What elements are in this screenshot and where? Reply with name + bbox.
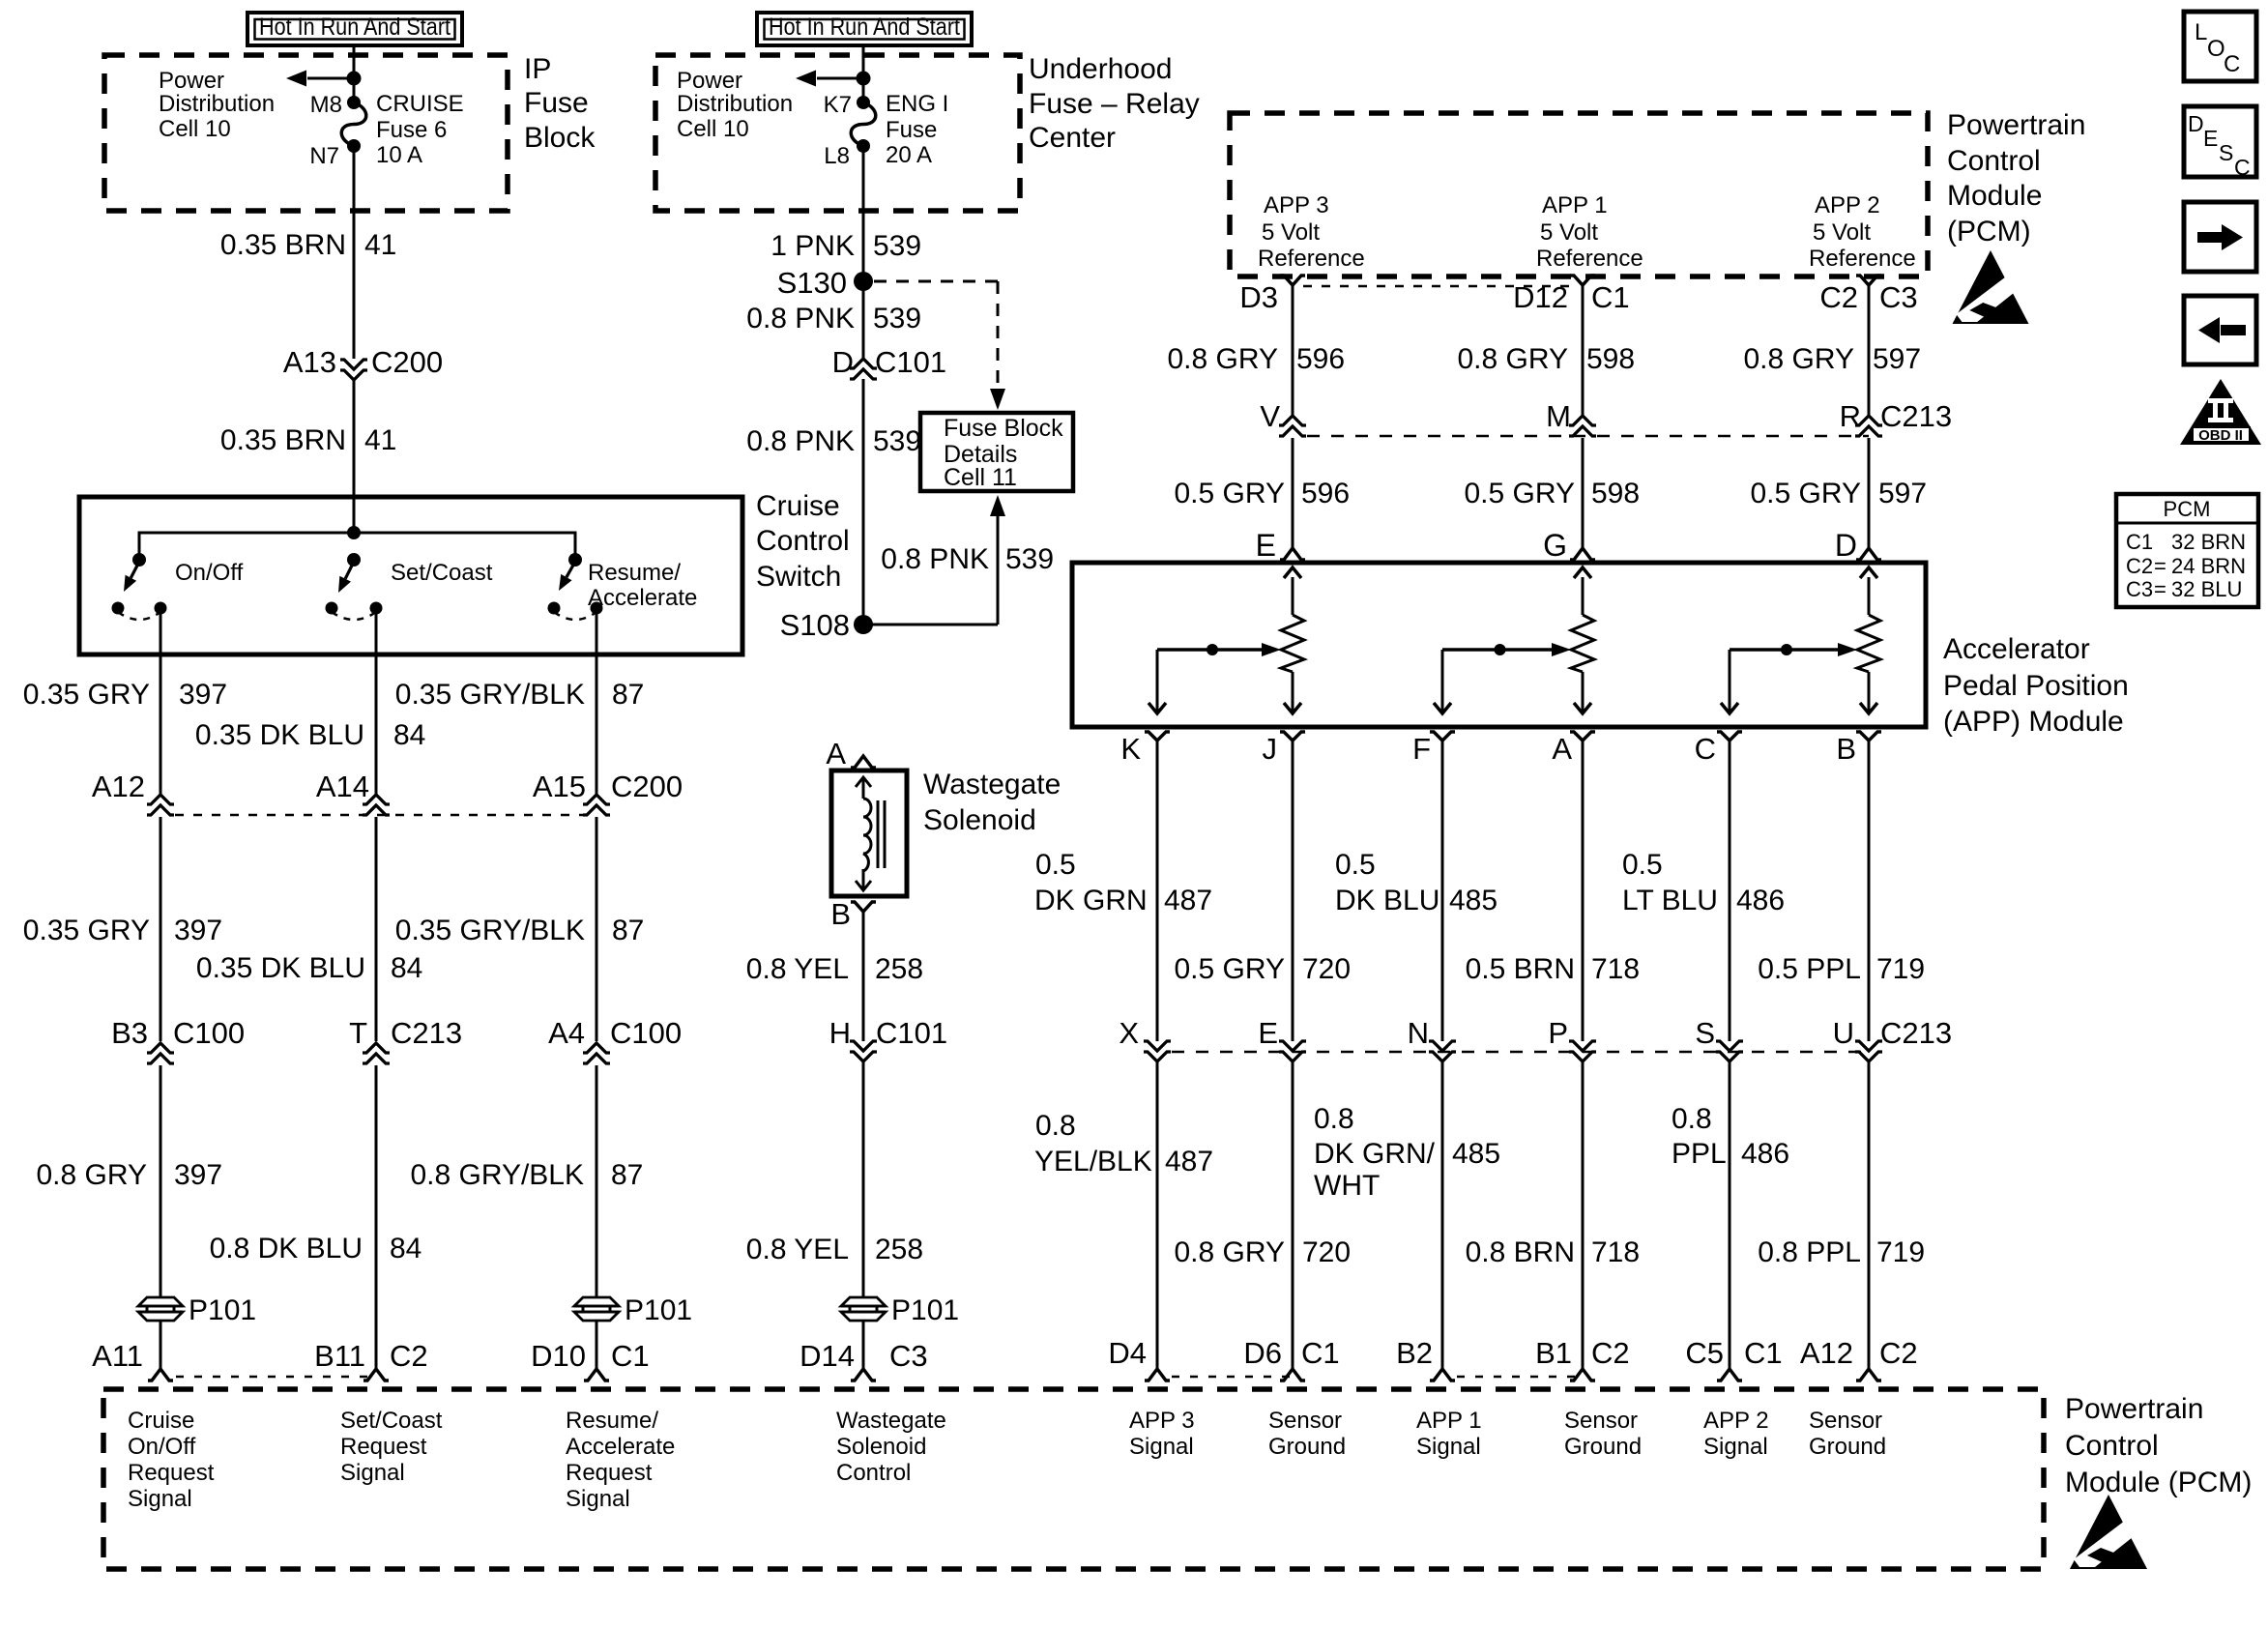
- svg-text:0.35 GRY: 0.35 GRY: [23, 679, 150, 711]
- svg-text:P101: P101: [625, 1294, 692, 1326]
- svg-text:Control: Control: [2065, 1430, 2159, 1462]
- svg-text:0.35 GRY: 0.35 GRY: [23, 915, 150, 946]
- svg-text:84: 84: [391, 952, 422, 984]
- svg-text:(APP) Module: (APP) Module: [1943, 706, 2124, 738]
- svg-text:0.5 PPL: 0.5 PPL: [1758, 953, 1861, 985]
- svg-text:539: 539: [1005, 543, 1054, 575]
- svg-text:0.5 GRY: 0.5 GRY: [1174, 478, 1285, 509]
- svg-text:A11: A11: [92, 1339, 143, 1373]
- svg-text:Resume/: Resume/: [588, 560, 681, 586]
- svg-text:597: 597: [1873, 343, 1921, 375]
- svg-text:D: D: [2188, 111, 2204, 136]
- svg-text:Sensor: Sensor: [1564, 1408, 1638, 1434]
- svg-text:Powertrain: Powertrain: [1947, 109, 2085, 141]
- svg-text:OBD II: OBD II: [2198, 427, 2243, 444]
- svg-text:C: C: [1695, 732, 1716, 766]
- svg-text:C101: C101: [876, 1016, 947, 1050]
- svg-text:Accelerate: Accelerate: [566, 1434, 675, 1460]
- svg-text:Signal: Signal: [566, 1486, 630, 1512]
- svg-text:T: T: [349, 1016, 367, 1050]
- svg-text:L8: L8: [824, 143, 850, 169]
- svg-text:C3: C3: [1879, 280, 1918, 314]
- svg-text:H: H: [829, 1016, 851, 1050]
- svg-text:APP 1: APP 1: [1416, 1408, 1482, 1434]
- svg-text:Reference: Reference: [1258, 246, 1365, 272]
- svg-text:5 Volt: 5 Volt: [1813, 219, 1871, 246]
- svg-text:Control: Control: [1947, 145, 2041, 177]
- svg-text:5 Volt: 5 Volt: [1540, 219, 1598, 246]
- svg-text:397: 397: [174, 915, 222, 946]
- svg-text:A4: A4: [548, 1016, 585, 1050]
- svg-text:0.5: 0.5: [1622, 849, 1663, 881]
- svg-text:DK GRN/: DK GRN/: [1314, 1138, 1436, 1170]
- svg-text:O: O: [2207, 36, 2225, 62]
- svg-text:597: 597: [1878, 478, 1927, 509]
- svg-text:B: B: [830, 897, 851, 931]
- svg-text:Fuse Block: Fuse Block: [944, 415, 1063, 442]
- svg-text:C: C: [2224, 51, 2240, 77]
- svg-text:0.35 GRY/BLK: 0.35 GRY/BLK: [395, 679, 585, 711]
- svg-text:0.8 GRY: 0.8 GRY: [36, 1159, 147, 1191]
- svg-text:D: D: [832, 345, 854, 379]
- svg-text:P101: P101: [891, 1294, 959, 1326]
- svg-text:On/Off: On/Off: [128, 1434, 196, 1460]
- svg-text:Underhood: Underhood: [1029, 53, 1172, 85]
- svg-text:Power: Power: [159, 68, 224, 94]
- svg-text:CRUISE: CRUISE: [376, 91, 464, 117]
- svg-text:0.8 PNK: 0.8 PNK: [881, 543, 989, 575]
- svg-text:F: F: [1412, 732, 1431, 766]
- svg-text:Request: Request: [128, 1460, 215, 1486]
- svg-text:D14: D14: [800, 1339, 855, 1373]
- svg-text:0.5 GRY: 0.5 GRY: [1464, 478, 1575, 509]
- svg-text:Block: Block: [524, 122, 596, 154]
- svg-text:Set/Coast: Set/Coast: [340, 1408, 443, 1434]
- svg-text:0.8 YEL: 0.8 YEL: [746, 953, 849, 985]
- svg-text:718: 718: [1591, 953, 1640, 985]
- svg-text:Reference: Reference: [1809, 246, 1916, 272]
- svg-text:Powertrain: Powertrain: [2065, 1393, 2203, 1425]
- svg-text:Signal: Signal: [1703, 1434, 1768, 1460]
- svg-text:598: 598: [1586, 343, 1635, 375]
- svg-text:0.8 PPL: 0.8 PPL: [1758, 1236, 1861, 1268]
- svg-text:P: P: [1548, 1016, 1568, 1050]
- svg-text:Cell 10: Cell 10: [159, 116, 231, 142]
- svg-text:719: 719: [1876, 1236, 1925, 1268]
- svg-text:K7: K7: [824, 92, 852, 118]
- svg-text:Fuse: Fuse: [886, 117, 937, 143]
- svg-text:D12: D12: [1513, 280, 1568, 314]
- svg-text:APP 3: APP 3: [1264, 192, 1329, 218]
- svg-text:Control: Control: [756, 525, 850, 557]
- svg-text:B2: B2: [1396, 1336, 1433, 1370]
- svg-text:1 PNK: 1 PNK: [771, 230, 855, 262]
- svg-text:Solenoid: Solenoid: [836, 1434, 926, 1460]
- svg-text:539: 539: [873, 230, 921, 262]
- svg-text:87: 87: [612, 915, 644, 946]
- svg-text:U: U: [1833, 1016, 1854, 1050]
- svg-text:=: =: [2154, 577, 2166, 601]
- svg-text:C213: C213: [1880, 399, 1952, 433]
- svg-text:C1: C1: [1591, 280, 1630, 314]
- svg-text:L: L: [2195, 19, 2207, 45]
- svg-text:Power: Power: [677, 68, 742, 94]
- svg-text:Hot In Run And Start: Hot In Run And Start: [259, 14, 451, 41]
- svg-text:539: 539: [873, 303, 921, 334]
- svg-text:Signal: Signal: [1129, 1434, 1194, 1460]
- svg-text:C200: C200: [611, 770, 683, 803]
- svg-text:486: 486: [1741, 1138, 1789, 1170]
- svg-text:B11: B11: [314, 1339, 365, 1373]
- svg-text:5 Volt: 5 Volt: [1262, 219, 1320, 246]
- svg-text:0.8 BRN: 0.8 BRN: [1466, 1236, 1575, 1268]
- svg-text:24 BRN: 24 BRN: [2171, 554, 2246, 578]
- svg-text:APP 2: APP 2: [1815, 192, 1880, 218]
- svg-text:N: N: [1408, 1016, 1429, 1050]
- svg-text:20 A: 20 A: [886, 142, 932, 168]
- svg-text:A12: A12: [92, 770, 145, 803]
- svg-text:0.8 PNK: 0.8 PNK: [746, 303, 855, 334]
- svg-text:596: 596: [1296, 343, 1345, 375]
- svg-text:0.8 YEL: 0.8 YEL: [746, 1234, 849, 1265]
- svg-text:Reference: Reference: [1536, 246, 1643, 272]
- svg-text:Fuse – Relay: Fuse – Relay: [1029, 88, 1200, 120]
- svg-text:P101: P101: [189, 1294, 256, 1326]
- svg-text:E: E: [2203, 126, 2218, 151]
- svg-text:Ground: Ground: [1564, 1434, 1642, 1460]
- svg-text:V: V: [1260, 399, 1280, 433]
- svg-text:C213: C213: [1880, 1016, 1952, 1050]
- svg-text:Module: Module: [1947, 180, 2042, 212]
- svg-text:Wastegate: Wastegate: [836, 1408, 946, 1434]
- svg-text:C100: C100: [610, 1016, 682, 1050]
- svg-text:Cell 11: Cell 11: [944, 464, 1017, 491]
- svg-text:Pedal Position: Pedal Position: [1943, 670, 2129, 702]
- svg-text:D6: D6: [1243, 1336, 1282, 1370]
- svg-text:397: 397: [174, 1159, 222, 1191]
- svg-text:E: E: [1256, 528, 1276, 563]
- svg-text:Signal: Signal: [340, 1460, 405, 1486]
- svg-text:0.8: 0.8: [1035, 1110, 1076, 1142]
- svg-text:596: 596: [1301, 478, 1350, 509]
- svg-text:485: 485: [1449, 885, 1497, 916]
- svg-text:Signal: Signal: [1416, 1434, 1481, 1460]
- svg-text:0.5 BRN: 0.5 BRN: [1466, 953, 1575, 985]
- svg-text:C1: C1: [1301, 1336, 1340, 1370]
- svg-text:0.35 DK BLU: 0.35 DK BLU: [195, 719, 364, 751]
- svg-text:84: 84: [393, 719, 425, 751]
- svg-text:0.5: 0.5: [1335, 849, 1376, 881]
- svg-text:ENG I: ENG I: [886, 91, 948, 117]
- svg-text:X: X: [1119, 1016, 1139, 1050]
- svg-text:WHT: WHT: [1314, 1170, 1380, 1202]
- svg-text:Resume/: Resume/: [566, 1408, 658, 1434]
- svg-text:Sensor: Sensor: [1809, 1408, 1882, 1434]
- svg-text:B3: B3: [111, 1016, 148, 1050]
- svg-text:0.8 GRY: 0.8 GRY: [1167, 343, 1278, 375]
- svg-text:C: C: [2234, 155, 2251, 180]
- svg-text:PPL: PPL: [1672, 1138, 1727, 1170]
- svg-text:APP 2: APP 2: [1703, 1408, 1769, 1434]
- svg-text:41: 41: [364, 229, 396, 261]
- svg-text:C213: C213: [391, 1016, 462, 1050]
- svg-text:M: M: [1546, 399, 1571, 433]
- svg-text:720: 720: [1302, 1236, 1351, 1268]
- svg-text:0.8 PNK: 0.8 PNK: [746, 425, 855, 457]
- svg-text:Center: Center: [1029, 122, 1116, 154]
- svg-text:Cruise: Cruise: [756, 490, 840, 522]
- svg-text:LT BLU: LT BLU: [1622, 885, 1718, 916]
- svg-text:Ground: Ground: [1268, 1434, 1346, 1460]
- svg-text:0.8 DK BLU: 0.8 DK BLU: [210, 1233, 363, 1265]
- svg-text:0.35 BRN: 0.35 BRN: [220, 424, 346, 456]
- svg-text:S130: S130: [777, 266, 847, 300]
- svg-text:Accelerate: Accelerate: [588, 585, 697, 611]
- svg-text:84: 84: [390, 1233, 422, 1265]
- svg-text:On/Off: On/Off: [175, 560, 244, 586]
- svg-text:R: R: [1840, 399, 1861, 433]
- svg-text:0.35 DK BLU: 0.35 DK BLU: [196, 952, 365, 984]
- svg-text:S108: S108: [780, 608, 850, 642]
- svg-text:C2: C2: [1819, 280, 1858, 314]
- svg-text:32 BLU: 32 BLU: [2171, 577, 2242, 601]
- svg-text:Distribution: Distribution: [159, 91, 275, 117]
- svg-text:0.8: 0.8: [1314, 1103, 1354, 1135]
- svg-text:N7: N7: [309, 143, 339, 169]
- svg-text:87: 87: [612, 679, 644, 711]
- svg-text:C2: C2: [2126, 554, 2153, 578]
- svg-text:Solenoid: Solenoid: [923, 804, 1036, 836]
- svg-text:Request: Request: [566, 1460, 653, 1486]
- svg-text:Distribution: Distribution: [677, 91, 793, 117]
- svg-text:0.8: 0.8: [1672, 1103, 1712, 1135]
- svg-text:Wastegate: Wastegate: [923, 769, 1061, 800]
- svg-text:K: K: [1120, 732, 1141, 766]
- svg-text:32 BRN: 32 BRN: [2171, 530, 2246, 554]
- svg-text:A13: A13: [283, 345, 336, 379]
- svg-text:A: A: [826, 737, 846, 770]
- svg-text:0.35 BRN: 0.35 BRN: [220, 229, 346, 261]
- svg-text:Switch: Switch: [756, 561, 841, 593]
- svg-text:APP 1: APP 1: [1542, 192, 1608, 218]
- svg-text:C3: C3: [889, 1339, 928, 1373]
- svg-text:Sensor: Sensor: [1268, 1408, 1342, 1434]
- svg-text:D: D: [1835, 528, 1857, 563]
- svg-text:0.5: 0.5: [1035, 849, 1076, 881]
- svg-text:485: 485: [1452, 1138, 1500, 1170]
- svg-text:G: G: [1543, 528, 1567, 563]
- svg-text:Ground: Ground: [1809, 1434, 1886, 1460]
- svg-text:C200: C200: [371, 345, 443, 379]
- svg-text:YEL/BLK: YEL/BLK: [1034, 1146, 1152, 1177]
- svg-text:0.8 GRY: 0.8 GRY: [1743, 343, 1854, 375]
- svg-text:258: 258: [875, 1234, 923, 1265]
- svg-text:J: J: [1263, 732, 1278, 766]
- svg-text:A15: A15: [533, 770, 586, 803]
- svg-text:Fuse: Fuse: [524, 87, 589, 119]
- svg-text:=: =: [2154, 554, 2166, 578]
- svg-text:B: B: [1836, 732, 1856, 766]
- svg-text:487: 487: [1165, 1146, 1213, 1177]
- svg-text:598: 598: [1591, 478, 1640, 509]
- svg-text:719: 719: [1876, 953, 1925, 985]
- svg-text:718: 718: [1591, 1236, 1640, 1268]
- svg-text:0.5 GRY: 0.5 GRY: [1174, 953, 1285, 985]
- svg-text:Request: Request: [340, 1434, 427, 1460]
- svg-text:D4: D4: [1108, 1336, 1147, 1370]
- svg-text:0.5 GRY: 0.5 GRY: [1750, 478, 1861, 509]
- svg-text:0.8 GRY: 0.8 GRY: [1457, 343, 1568, 375]
- svg-text:C1: C1: [1744, 1336, 1783, 1370]
- svg-text:258: 258: [875, 953, 923, 985]
- svg-text:720: 720: [1302, 953, 1351, 985]
- svg-text:397: 397: [179, 679, 227, 711]
- svg-text:C2: C2: [1591, 1336, 1630, 1370]
- svg-text:Accelerator: Accelerator: [1943, 633, 2090, 665]
- svg-text:A14: A14: [316, 770, 369, 803]
- svg-text:B1: B1: [1535, 1336, 1572, 1370]
- svg-text:A: A: [1552, 732, 1572, 766]
- svg-text:C3: C3: [2126, 577, 2153, 601]
- svg-text:C101: C101: [875, 345, 946, 379]
- svg-text:S: S: [1695, 1016, 1715, 1050]
- svg-text:PCM: PCM: [2164, 497, 2211, 521]
- svg-text:IP: IP: [524, 53, 551, 85]
- svg-text:0.8 GRY/BLK: 0.8 GRY/BLK: [410, 1159, 584, 1191]
- svg-text:APP 3: APP 3: [1129, 1408, 1195, 1434]
- svg-text:Module (PCM): Module (PCM): [2065, 1467, 2252, 1498]
- svg-text:539: 539: [873, 425, 921, 457]
- svg-text:87: 87: [611, 1159, 643, 1191]
- svg-text:Cell 10: Cell 10: [677, 116, 749, 142]
- svg-text:DK BLU: DK BLU: [1335, 885, 1439, 916]
- svg-text:C2: C2: [390, 1339, 428, 1373]
- svg-text:487: 487: [1164, 885, 1212, 916]
- svg-text:0.8 GRY: 0.8 GRY: [1174, 1236, 1285, 1268]
- svg-text:A12: A12: [1800, 1336, 1853, 1370]
- svg-text:S: S: [2219, 140, 2233, 165]
- svg-text:(PCM): (PCM): [1947, 216, 2031, 247]
- svg-text:E: E: [1258, 1016, 1278, 1050]
- svg-text:C1: C1: [2126, 530, 2153, 554]
- svg-text:C5: C5: [1685, 1336, 1724, 1370]
- svg-text:0.35 GRY/BLK: 0.35 GRY/BLK: [395, 915, 585, 946]
- svg-text:Cruise: Cruise: [128, 1408, 194, 1434]
- svg-text:Hot In Run And Start: Hot In Run And Start: [769, 14, 960, 41]
- svg-text:Control: Control: [836, 1460, 911, 1486]
- svg-text:D10: D10: [531, 1339, 586, 1373]
- svg-text:D3: D3: [1239, 280, 1278, 314]
- svg-text:M8: M8: [310, 92, 342, 118]
- svg-text:C1: C1: [611, 1339, 650, 1373]
- svg-text:C2: C2: [1879, 1336, 1918, 1370]
- svg-text:486: 486: [1736, 885, 1785, 916]
- svg-text:10 A: 10 A: [376, 142, 422, 168]
- svg-text:Signal: Signal: [128, 1486, 192, 1512]
- svg-text:C100: C100: [173, 1016, 245, 1050]
- svg-text:DK GRN: DK GRN: [1034, 885, 1148, 916]
- svg-text:Fuse 6: Fuse 6: [376, 117, 447, 143]
- svg-text:41: 41: [364, 424, 396, 456]
- svg-text:Set/Coast: Set/Coast: [391, 560, 493, 586]
